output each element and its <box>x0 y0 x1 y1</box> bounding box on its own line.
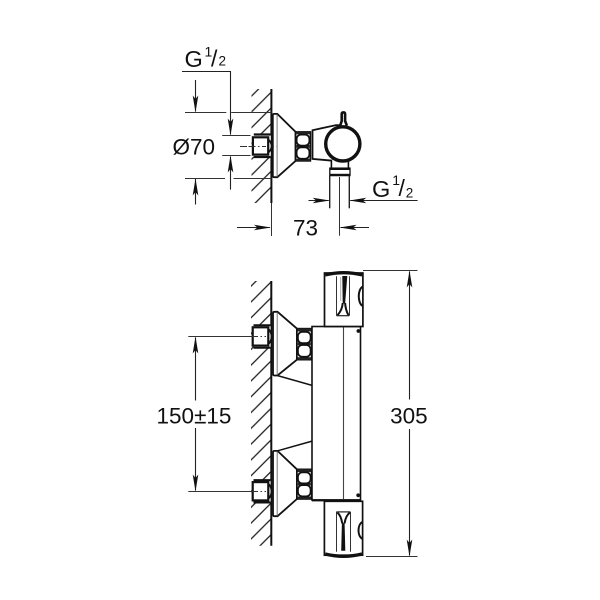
svg-text:G: G <box>372 176 390 202</box>
valve body (top view) <box>313 125 345 161</box>
wall hatching (top view) <box>252 89 272 203</box>
upper union square fitting (bottom view) <box>253 327 269 345</box>
wall face line (top view) <box>270 89 272 203</box>
305 dim bottom extension line <box>366 556 418 558</box>
svg-text:305: 305 <box>390 403 428 428</box>
outlet pipe <box>330 176 350 209</box>
150 dim lower extension line <box>188 491 249 493</box>
S-union pipe edge lower <box>278 441 313 451</box>
union nose arc (top view) <box>269 140 272 153</box>
union square fitting in wall (top view) <box>253 137 268 154</box>
G1/2 dimension (outlet pipe) right arrow with leader <box>349 198 417 204</box>
body bottom dark edge <box>312 499 361 501</box>
centreline dash-dot through upper union <box>249 336 271 338</box>
retaining screw dot lower <box>356 493 360 497</box>
extension line top of union thread (G 1/2) <box>222 135 250 137</box>
top handle (bottom view) <box>325 273 363 327</box>
escutcheon rosette (top view) <box>273 114 296 177</box>
svg-text:150±15: 150±15 <box>157 403 232 428</box>
pipe centre extension line <box>339 177 341 236</box>
svg-text:2: 2 <box>219 54 227 69</box>
text G 1/2 (right label) <box>372 172 413 202</box>
73 dimension right arrow <box>340 225 369 231</box>
bottom handle side arc <box>359 522 363 539</box>
305 dimension line with arrows <box>407 271 413 557</box>
outlet nut band <box>330 168 350 176</box>
svg-text:Ø70: Ø70 <box>173 134 216 159</box>
upper escutcheon (bottom view) <box>273 312 297 376</box>
bottom handle (bottom view) <box>324 501 362 555</box>
extension line bottom of union thread (G 1/2) <box>222 155 250 157</box>
lower union nose arc (bottom view) <box>269 484 272 498</box>
S-union pipe edge upper <box>278 376 313 386</box>
text G 1/2 (top label) <box>185 44 227 73</box>
retaining screw dot upper <box>357 329 361 333</box>
svg-text:/: / <box>399 175 406 201</box>
150±15 dimension line with arrows <box>193 337 199 492</box>
body highlight line <box>343 327 345 499</box>
G1/2 dimension arrow lower (union) <box>228 156 234 190</box>
hex nut (top view) <box>296 132 311 161</box>
wall hatching (bottom view) <box>251 281 271 546</box>
G1/2 dimension (outlet pipe) left arrow <box>309 198 330 204</box>
73 dimension left arrow <box>237 225 271 231</box>
svg-text:73: 73 <box>293 216 318 241</box>
wall face extension line for 73 dim <box>271 203 273 236</box>
wall face line (bottom view) <box>270 281 272 546</box>
outlet neck below knob <box>331 160 348 168</box>
bottom handle dark cap lens <box>325 554 362 556</box>
Ø70 dimension arrow upper <box>193 80 199 113</box>
upper hex nut (bottom view) <box>297 329 312 360</box>
extension line top of escutcheon (Ø70) <box>185 112 226 114</box>
upper union nose arc (bottom view) <box>269 330 272 344</box>
lower escutcheon (bottom view) <box>273 451 297 516</box>
svg-text:/: / <box>211 46 218 72</box>
union sleeve in wall (top view) <box>254 135 271 158</box>
bottom handle grip groove <box>336 512 350 552</box>
knob circle (top view) <box>326 127 360 161</box>
150 dim upper extension line <box>188 336 249 338</box>
upper union sleeve (bottom view) <box>254 325 271 347</box>
G1/2 label (top) with leader line down <box>182 72 231 135</box>
svg-text:G: G <box>185 46 203 72</box>
escutcheon rim line (top view) <box>276 115 278 177</box>
lower union sleeve (bottom view) <box>254 480 271 502</box>
top handle grip groove <box>337 276 350 316</box>
centreline dash-dot through lower union <box>249 491 271 493</box>
main body column (bottom view) <box>312 327 361 501</box>
svg-text:2: 2 <box>406 186 414 201</box>
305 dim top extension line <box>363 270 418 272</box>
top handle dark cap lens <box>325 273 362 275</box>
Ø70 dimension arrow lower <box>193 179 199 205</box>
top handle side arc <box>359 287 363 306</box>
extension line bottom of escutcheon (Ø70) <box>185 178 225 180</box>
lower union square fitting (bottom view) <box>253 482 269 500</box>
handle stem on top of knob <box>340 112 347 125</box>
escutcheon right edge <box>295 132 297 161</box>
lower hex nut (bottom view) <box>297 469 312 499</box>
centreline of wall union (top view, dash-dot) <box>240 146 277 148</box>
